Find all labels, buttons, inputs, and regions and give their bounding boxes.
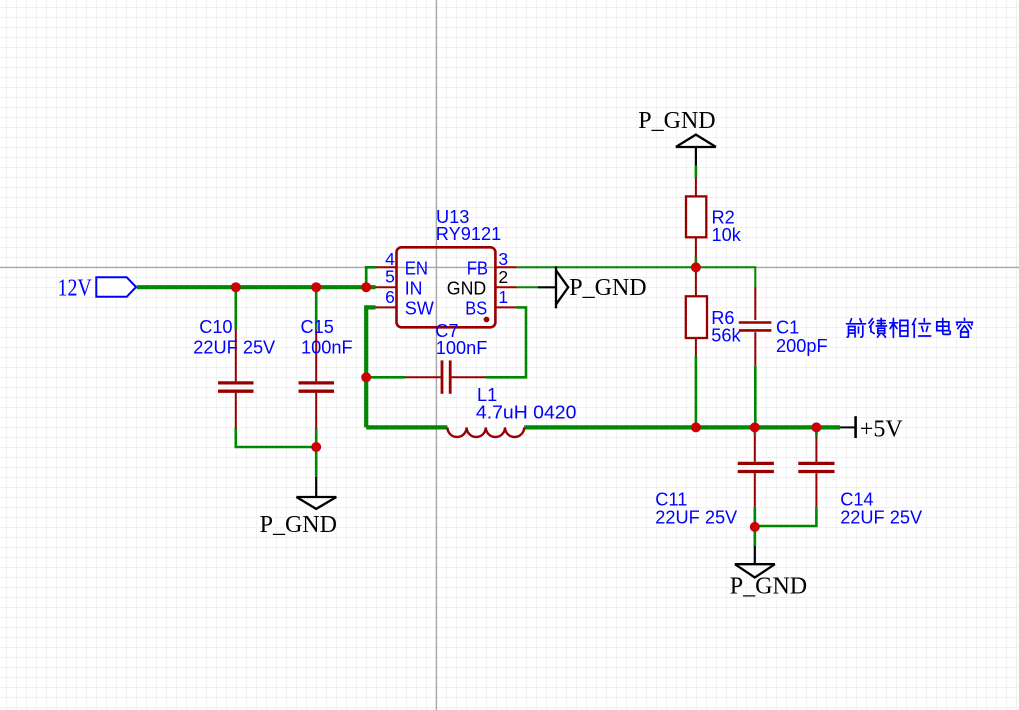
wire C15 drop top xyxy=(315,287,318,330)
svg-text:C10: C10 xyxy=(199,317,232,337)
power flag P_GND bottom-right xyxy=(730,546,807,600)
wire gnd stub bottom-left xyxy=(315,447,318,477)
wire C7 right to BS xyxy=(486,307,526,377)
wire C10 drop bottom xyxy=(236,428,316,447)
wire C15 drop bottom xyxy=(315,428,318,447)
junction 12V bus / C10 xyxy=(231,282,241,292)
wire C1 bottom green xyxy=(754,366,757,428)
crosshair vertical axis xyxy=(435,0,437,710)
svg-text:P_GND: P_GND xyxy=(638,108,715,134)
wire C11 top green xyxy=(753,427,756,434)
svg-text:2: 2 xyxy=(498,267,508,287)
svg-text:200pF: 200pF xyxy=(776,336,828,356)
pin 3 xyxy=(495,266,516,268)
capacitor C11 xyxy=(655,434,774,527)
wire EN branch xyxy=(366,267,375,287)
wire C11 bottom green xyxy=(753,507,756,546)
svg-text:10k: 10k xyxy=(712,225,742,245)
junction P_GND / C11 C14 xyxy=(750,522,760,532)
svg-text:6: 6 xyxy=(385,287,395,307)
wire L1 output bus xyxy=(366,425,447,429)
wire GND pin green xyxy=(517,286,539,288)
svg-text:12V: 12V xyxy=(58,275,93,302)
junction 12V bus / EN branch xyxy=(361,282,371,292)
junction +5V bus / R6 xyxy=(691,422,701,432)
pin 6 xyxy=(376,306,397,308)
wire C7 left branch xyxy=(366,376,405,379)
svg-text:RY9121: RY9121 xyxy=(436,224,501,244)
svg-text:C1: C1 xyxy=(776,318,799,338)
wire C14 top green xyxy=(815,427,818,437)
wire C14 bottom green xyxy=(755,507,817,526)
wire R6 bottom green xyxy=(695,356,698,427)
svg-text:EN: EN xyxy=(405,257,428,278)
svg-text:5: 5 xyxy=(385,267,395,287)
svg-text:100nF: 100nF xyxy=(436,338,488,358)
IC U13 RY9121 xyxy=(397,207,502,327)
wire R2 top green xyxy=(695,166,698,178)
junction +5V bus / C11 xyxy=(750,422,760,432)
svg-text:22UF 25V: 22UF 25V xyxy=(840,507,923,527)
junction FB node R2/R6 xyxy=(691,262,701,272)
svg-text:GND: GND xyxy=(447,277,486,298)
capacitor C1 xyxy=(739,287,828,366)
resistor R6 xyxy=(686,273,742,357)
svg-text:1: 1 xyxy=(498,287,508,307)
inductor L1 xyxy=(447,385,576,437)
svg-text:IN: IN xyxy=(405,277,423,298)
svg-text:SW: SW xyxy=(405,298,434,319)
BS pin marker dot xyxy=(484,317,490,323)
svg-text:C15: C15 xyxy=(301,317,334,337)
svg-text:P_GND: P_GND xyxy=(260,512,337,538)
svg-text:FB: FB xyxy=(467,257,488,278)
svg-text:100nF: 100nF xyxy=(301,337,353,357)
svg-text:P_GND: P_GND xyxy=(569,275,646,301)
wire 12V bus xyxy=(137,285,376,289)
pin 1 xyxy=(495,306,516,308)
pin 5 xyxy=(376,286,397,288)
resistor R2 xyxy=(686,178,742,258)
pin 4 xyxy=(376,266,397,268)
wire R2 bottom green xyxy=(695,258,698,273)
svg-text:56k: 56k xyxy=(711,325,741,345)
wire FB net xyxy=(517,267,756,287)
power flag +5V xyxy=(840,416,903,442)
crosshair horizontal axis xyxy=(0,266,1019,268)
power flag P_GND bottom-left xyxy=(260,477,337,538)
capacitor C15 xyxy=(299,317,353,428)
svg-text:22UF 25V: 22UF 25V xyxy=(655,507,738,527)
power flag P_GND right of GND pin xyxy=(538,266,647,308)
svg-text:4.7uH 0420: 4.7uH 0420 xyxy=(476,403,577,423)
capacitor C7 xyxy=(405,321,487,394)
svg-text:22UF 25V: 22UF 25V xyxy=(193,337,276,357)
annotation text 前馈相位电容 xyxy=(850,319,851,322)
wire C10 drop top xyxy=(235,287,238,330)
junction +5V bus / C14 xyxy=(811,422,821,432)
wire SW to L1 xyxy=(366,307,375,427)
svg-text:BS: BS xyxy=(465,298,487,319)
pin 2 xyxy=(495,286,516,288)
power flag P_GND top xyxy=(638,108,716,166)
svg-text:+5V: +5V xyxy=(860,416,904,442)
junction 12V bus / C15 xyxy=(311,282,321,292)
annotation 前馈相位电容 (hand-drawn CJK strokes) xyxy=(847,318,973,337)
capacitor C10 xyxy=(193,317,276,428)
capacitor C14 xyxy=(798,437,923,527)
svg-text:P_GND: P_GND xyxy=(730,574,807,600)
junction P_GND / C10 C15 xyxy=(311,442,321,452)
junction SW net / C7 xyxy=(361,372,371,382)
port 12V xyxy=(58,275,137,302)
